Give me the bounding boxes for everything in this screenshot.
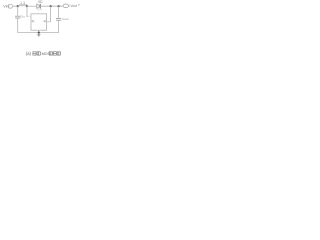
svg-text:Cin: Cin: [20, 15, 25, 19]
wire top rail mid: [27, 5, 37, 7]
svg-text:Vout: Vout: [70, 4, 77, 8]
wire gnd stub from box: [38, 30, 40, 34]
node junction dot B: [26, 5, 28, 7]
svg-text:Cout: Cout: [62, 17, 68, 21]
svg-text:Vin: Vin: [3, 3, 9, 8]
svg-text:(a): (a): [26, 51, 32, 56]
ground: [37, 33, 40, 35]
wire pin stub right: [50, 6, 52, 22]
svg-text:VD: VD: [38, 0, 43, 4]
node junction dot gnd: [38, 32, 40, 34]
pin label right: [44, 20, 46, 22]
capacitor C1: [15, 15, 20, 17]
port ellipse Vout: [63, 4, 69, 8]
wire bottom rail: [18, 32, 59, 34]
stray mark right edge: [78, 4, 80, 5]
diode VD: [37, 4, 40, 9]
svg-text:L1: L1: [21, 1, 26, 5]
wire Cin vertical top: [17, 6, 19, 16]
pin label left: [32, 20, 34, 22]
wire to Vout label: [69, 5, 70, 7]
wire Cout vertical top: [58, 6, 60, 18]
caption: [26, 51, 61, 56]
node junction dot C: [50, 5, 52, 7]
wire pin stub left: [26, 6, 28, 16]
node junction dot D: [58, 5, 60, 7]
wire Cin vertical bottom: [17, 18, 19, 33]
inductor L1: [19, 5, 27, 7]
wire top rail right: [40, 5, 63, 7]
svg-text:MOS: MOS: [42, 52, 51, 56]
wire Cout vertical bottom: [58, 20, 60, 32]
wire top rail left: [13, 5, 17, 7]
port flag Vin: [9, 4, 13, 8]
IC box U1: [31, 14, 47, 30]
capacitor C2: [56, 17, 61, 19]
node junction dot A: [17, 5, 19, 7]
pin number specks above box: [38, 9, 39, 10]
